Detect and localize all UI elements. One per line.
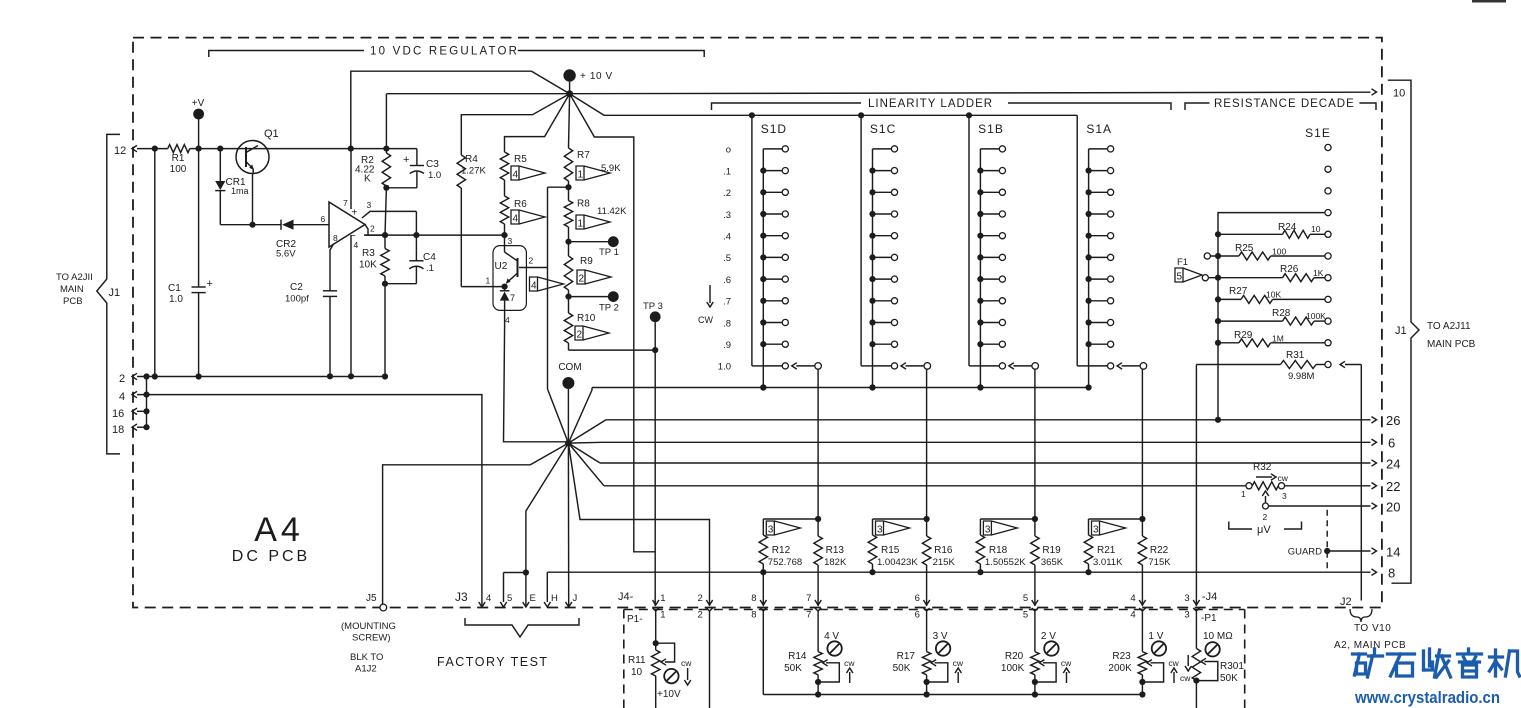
svg-text:+ 10 V: + 10 V	[580, 71, 613, 82]
switch S1B contact 8	[980, 322, 999, 324]
switch S1C contact 3	[873, 213, 892, 215]
svg-text:2: 2	[1263, 512, 1268, 522]
svg-text:1: 1	[660, 593, 665, 604]
wire J4 to R17	[926, 611, 928, 652]
R32 cw arrow	[1256, 476, 1272, 478]
U1 pin 7	[350, 149, 352, 209]
capacitor C2	[323, 290, 337, 292]
svg-text:www.crystalradio.cn: www.crystalradio.cn	[1354, 689, 1500, 707]
svg-text:4: 4	[119, 391, 125, 403]
R14 screw	[827, 641, 841, 655]
svg-text:182K: 182K	[824, 557, 847, 568]
switch S1D contact 7	[763, 300, 782, 302]
wire TP3 line down to J4 pin1	[654, 350, 656, 606]
svg-text:A4: A4	[254, 511, 304, 549]
trimpot R23	[1138, 652, 1146, 675]
svg-text:R26: R26	[1280, 264, 1299, 275]
wire pin 8 line	[547, 571, 1370, 573]
svg-text:16: 16	[112, 408, 124, 420]
svg-text:4: 4	[1130, 593, 1135, 604]
pin 26 arrow	[1372, 417, 1377, 423]
svg-text:4 V: 4 V	[824, 631, 839, 642]
svg-text:R27: R27	[1229, 286, 1248, 297]
svg-text:18: 18	[112, 424, 124, 436]
svg-text:cw: cw	[844, 658, 855, 668]
svg-text:A2, MAIN PCB: A2, MAIN PCB	[1334, 640, 1406, 651]
wire pin 12 drop	[154, 149, 156, 377]
resistor R3	[381, 249, 389, 277]
svg-text:R1: R1	[172, 153, 185, 164]
svg-text:6: 6	[321, 214, 326, 224]
svg-text:8: 8	[751, 593, 756, 604]
switch S1B contact 3	[980, 213, 999, 215]
resistor R28	[1218, 320, 1283, 322]
switch S1D contact 10	[763, 365, 782, 367]
J3 pin E arrow	[523, 602, 529, 607]
switch S1C wiper	[924, 363, 931, 370]
wire pin 22 line right	[1285, 485, 1371, 487]
pin 24 arrow	[1372, 460, 1377, 466]
switch S1A bus	[1076, 115, 1078, 366]
wire Q1 emitter down	[252, 174, 254, 225]
wire J4 pin1 to R11	[655, 611, 657, 650]
svg-text:R14: R14	[788, 651, 807, 662]
switch S1B contact 2	[980, 191, 999, 193]
svg-text:SCREW): SCREW)	[352, 633, 391, 644]
wire star down to R7	[569, 94, 570, 148]
wire star to ladder feed	[570, 94, 1078, 116]
wire COM star to pin24 line	[568, 443, 600, 463]
svg-text:100: 100	[170, 164, 187, 175]
resistor R5	[500, 152, 508, 180]
wire COM star to line A	[568, 388, 592, 444]
flag 1 of R8	[576, 215, 610, 229]
flag 2 of R10	[575, 326, 609, 340]
resistor R15	[868, 535, 876, 564]
svg-text:J: J	[573, 593, 578, 604]
svg-text:5: 5	[1023, 610, 1028, 621]
switch S1A contact 10	[1089, 365, 1108, 367]
svg-text:P1-: P1-	[627, 614, 643, 625]
svg-text:C3: C3	[426, 159, 439, 170]
svg-text:R7: R7	[577, 150, 590, 161]
switch S1A contact 2	[1089, 191, 1108, 193]
resistor R6	[504, 180, 506, 196]
resistor R12	[759, 535, 767, 564]
svg-text:J4-: J4-	[618, 591, 634, 603]
svg-text:BLK TO: BLK TO	[350, 652, 383, 663]
U1 pin 4 wire	[350, 235, 352, 376]
label uV bracket	[1229, 522, 1252, 530]
switch S1A contact 5	[1089, 256, 1108, 258]
svg-text:1.50552K: 1.50552K	[985, 557, 1026, 568]
svg-text:1.0: 1.0	[428, 170, 441, 181]
pin 4 arrow	[132, 391, 137, 397]
svg-text:PCB: PCB	[63, 296, 83, 307]
svg-text:TP 2: TP 2	[599, 303, 619, 314]
svg-text:DC PCB: DC PCB	[232, 548, 310, 565]
resistor R4	[457, 155, 465, 188]
switch S1A contact 3	[1089, 213, 1108, 215]
switch S1C bus	[860, 115, 862, 366]
switch S1B bus	[968, 115, 970, 366]
svg-text:cw: cw	[1180, 673, 1191, 683]
wire star to R4	[461, 94, 569, 155]
svg-text:4: 4	[531, 281, 537, 292]
switch S1B contact 5	[980, 256, 999, 258]
svg-text:GUARD: GUARD	[1288, 547, 1322, 558]
switch S1C feed dot	[858, 112, 864, 118]
label 10 VDC REGULATOR bracket	[209, 51, 364, 58]
switch S1D bus	[751, 115, 753, 366]
wire pin 26 line	[606, 419, 1371, 421]
svg-text:7: 7	[806, 610, 811, 621]
svg-text:RESISTANCE DECADE: RESISTANCE DECADE	[1214, 98, 1355, 110]
test point TP2	[569, 296, 610, 298]
svg-text:5: 5	[1023, 593, 1028, 604]
trimpot R11	[652, 650, 660, 676]
svg-text:MAIN: MAIN	[60, 284, 84, 295]
wire pin 22 line left	[604, 485, 1246, 487]
svg-text:6: 6	[915, 593, 920, 604]
transistor U2 box	[493, 246, 526, 311]
wire pin12 to R1	[137, 148, 168, 150]
svg-text:5: 5	[507, 593, 512, 604]
wire star to +10V drop line	[570, 94, 656, 552]
svg-text:10 MΩ: 10 MΩ	[1203, 631, 1233, 642]
svg-text:+: +	[403, 154, 409, 166]
svg-text:20: 20	[1386, 500, 1400, 515]
svg-text:2: 2	[698, 610, 703, 621]
wire R18 R19 junction	[980, 518, 1035, 520]
svg-text:K: K	[364, 174, 371, 185]
wire COM star to J3 pin J	[567, 443, 569, 606]
GUARD dashed line	[1326, 510, 1328, 570]
resistor R8	[568, 187, 570, 200]
ladder CW arrow	[709, 285, 711, 303]
pin 2 arrow	[132, 373, 137, 379]
R301 cw arrow	[1187, 655, 1189, 666]
svg-text:.7: .7	[723, 297, 731, 308]
svg-text:3: 3	[877, 525, 883, 536]
trimpot R20	[1031, 652, 1039, 675]
svg-text:C4: C4	[423, 252, 436, 263]
svg-text:R3: R3	[362, 248, 375, 259]
R32 wiper	[1263, 503, 1269, 509]
J3 pin 4 arrow	[479, 602, 485, 607]
svg-text:1: 1	[578, 219, 584, 230]
svg-text:J1: J1	[109, 287, 121, 299]
svg-text:3: 3	[1184, 593, 1189, 604]
switch S1B contact 0	[980, 148, 999, 150]
svg-text:.8: .8	[723, 318, 731, 329]
wire R3 bottom to bus	[384, 284, 386, 377]
svg-text:R8: R8	[577, 199, 590, 210]
wire U2 pin2 column up	[547, 187, 549, 267]
switch S1D contact 8	[763, 322, 782, 324]
svg-text:100: 100	[1272, 247, 1286, 257]
J4 pin 4 arrow	[1139, 600, 1145, 605]
switch S1A contact 1	[1089, 170, 1108, 172]
pin 20 arrow	[1372, 503, 1377, 509]
svg-text:R15: R15	[881, 545, 900, 556]
svg-text:.1: .1	[723, 166, 731, 177]
svg-text:+: +	[352, 208, 358, 219]
svg-text:J2: J2	[1340, 596, 1352, 608]
fuse F1 terminals	[1204, 253, 1210, 259]
svg-text:R22: R22	[1150, 545, 1169, 556]
switch S1C contact 1	[873, 170, 892, 172]
wire star left to R2	[385, 148, 387, 150]
svg-text:4: 4	[354, 240, 359, 250]
diode CR1	[219, 149, 221, 181]
wire star to Q1 feed	[351, 71, 570, 148]
switch S1D contact 6	[763, 278, 782, 280]
svg-text:H: H	[551, 593, 558, 604]
U2 pin 2 wire	[519, 267, 548, 269]
svg-text:200K: 200K	[1108, 663, 1132, 674]
wire R7-R8 node left	[548, 186, 569, 188]
wire ladder bottom line A	[592, 387, 1089, 389]
svg-text:S1D: S1D	[761, 122, 787, 136]
svg-text:3: 3	[1282, 491, 1287, 501]
svg-text:50K: 50K	[1220, 673, 1238, 684]
label RESISTANCE DECADE bracket	[1185, 103, 1210, 110]
wire COM star to J3 pin E	[526, 443, 569, 606]
pin 6 arrow	[1372, 439, 1377, 445]
J4 pin 2 arrow	[706, 600, 712, 605]
svg-text:cw: cw	[953, 658, 964, 668]
wire +10V stem	[569, 82, 571, 94]
switch S1B feed dot	[966, 112, 972, 118]
switch S1B contact 4	[980, 235, 999, 237]
resistor R7	[564, 148, 572, 181]
resistor R29	[1218, 342, 1239, 344]
R23 screw	[1152, 641, 1166, 655]
svg-text:.4: .4	[723, 232, 731, 243]
J4 pin 5 arrow	[1032, 600, 1038, 605]
wire COM star to pin6 line	[568, 441, 602, 444]
wire star to pin 10	[570, 92, 1371, 94]
svg-text:R4: R4	[465, 154, 478, 165]
svg-text:50K: 50K	[893, 663, 911, 674]
switch S1A contact 6	[1089, 278, 1108, 280]
flag 3 of R12	[766, 521, 800, 535]
switch S1C contact 2	[873, 191, 892, 193]
switch S1E contacts	[1325, 144, 1331, 150]
switch S1A contact 8	[1089, 322, 1108, 324]
junction +10V star	[566, 90, 573, 97]
svg-text:μV: μV	[1257, 524, 1271, 536]
U2 pin 3 wire	[504, 235, 506, 252]
wire J4 pin8 to rail	[762, 611, 764, 695]
wire S1E row3 to bus	[1218, 213, 1325, 235]
svg-text:1.0: 1.0	[169, 294, 183, 305]
switch S1A contact 9	[1089, 343, 1108, 345]
svg-text:1.0: 1.0	[718, 362, 731, 373]
trimpot R14	[814, 652, 822, 675]
flag 2 of R9	[577, 270, 611, 284]
resistor R16	[926, 519, 928, 536]
svg-text:TP 3: TP 3	[643, 301, 663, 312]
svg-text:S1B: S1B	[978, 122, 1004, 136]
svg-text:10: 10	[1311, 224, 1321, 234]
wire S1A wiper to R21 R22 junction	[1141, 369, 1143, 519]
connector J1 left bracket	[97, 134, 120, 454]
svg-text:.5: .5	[723, 253, 731, 264]
switch S1A feed dot	[1076, 114, 1078, 116]
resistor R21	[1084, 535, 1092, 564]
wire node to R6 bottom	[385, 234, 505, 236]
svg-text:2: 2	[698, 593, 703, 604]
svg-text:10K: 10K	[1266, 290, 1281, 300]
switch S1D contact column	[762, 149, 764, 388]
svg-text:J3: J3	[455, 590, 468, 604]
wire S1D wiper to R12 R13 junction	[817, 369, 819, 519]
node COM	[562, 377, 574, 389]
svg-text:FACTORY TEST: FACTORY TEST	[437, 655, 549, 669]
svg-text:2 V: 2 V	[1041, 631, 1056, 642]
svg-text:R20: R20	[1005, 651, 1024, 662]
J4 pin 1 arrow	[653, 600, 659, 605]
svg-text:1K: 1K	[1313, 268, 1324, 278]
wire S1E wiper to J2	[1345, 364, 1361, 366]
R11 screw	[664, 669, 678, 683]
svg-text:2: 2	[119, 373, 125, 385]
switch S1C contact column	[872, 149, 874, 388]
wire J4 pin2 down	[709, 611, 711, 708]
node +10V	[563, 69, 575, 81]
switch S1C contact 9	[873, 343, 892, 345]
wire U1 minus node	[365, 234, 385, 236]
resistor R19	[1034, 519, 1036, 536]
wire R10 bottom to TP3 line	[569, 349, 656, 351]
transistor U2 internals	[517, 258, 519, 277]
diode CR2 5.6V	[280, 220, 282, 230]
P1 connector dashed outline	[624, 610, 1245, 708]
svg-text:6: 6	[915, 610, 920, 621]
svg-text:cw: cw	[681, 658, 692, 668]
wire COM star to pin26 line	[568, 420, 606, 443]
switch S1A contact column	[1088, 149, 1090, 388]
svg-text:7: 7	[806, 593, 811, 604]
pin 10 arrow	[1372, 89, 1377, 95]
svg-text:24: 24	[1386, 457, 1400, 472]
wire R1 to Q1 to +10V column	[190, 148, 351, 150]
wire pins 4-16-18 stub	[137, 410, 147, 412]
capacitor C1	[198, 149, 200, 287]
wire +V stem	[198, 119, 200, 149]
switch S1B contact 7	[980, 300, 999, 302]
pin 12 arrow	[132, 145, 137, 151]
switch S1B contact 10	[980, 365, 999, 367]
resistor R24	[1218, 233, 1283, 235]
wire J4 to R23	[1141, 611, 1143, 652]
svg-text:2: 2	[370, 224, 375, 234]
svg-text:R16: R16	[934, 545, 953, 556]
switch S1A wiper	[1140, 363, 1147, 370]
svg-text:-P1: -P1	[1201, 613, 1217, 624]
node +V	[193, 109, 204, 120]
switch S1D contact 4	[763, 235, 782, 237]
svg-text:2: 2	[577, 330, 583, 341]
wire R2 top to C3	[351, 148, 417, 150]
switch S1C contact 4	[873, 235, 892, 237]
svg-text:4: 4	[1130, 610, 1135, 621]
svg-text:R23: R23	[1112, 651, 1131, 662]
switch S1C contact 5	[873, 256, 892, 258]
wire S1B wiper to R18 R19 junction	[1034, 369, 1036, 519]
svg-text:100K: 100K	[1306, 311, 1326, 321]
node C1 bottom	[196, 373, 202, 379]
svg-text:R29: R29	[1234, 330, 1253, 341]
wire pin 4 to J3 pin 4	[137, 395, 482, 606]
svg-text:COM: COM	[558, 362, 581, 373]
svg-text:R9: R9	[580, 256, 593, 267]
svg-text:1ma: 1ma	[231, 186, 249, 196]
svg-text:1M: 1M	[1272, 334, 1284, 344]
watermark crystalradio logo	[1353, 652, 1366, 655]
svg-text:o: o	[726, 145, 731, 156]
svg-text:R18: R18	[989, 545, 1008, 556]
switch S1C contact 7	[873, 300, 892, 302]
trimpot R17	[922, 652, 930, 675]
resistor R22	[1141, 519, 1143, 536]
capacitor C3	[416, 149, 418, 166]
svg-text:TO V10: TO V10	[1354, 623, 1391, 634]
svg-text:cw: cw	[1168, 658, 1179, 668]
connector J5	[380, 604, 387, 611]
R17 screw	[936, 641, 950, 655]
svg-text:J5: J5	[366, 593, 377, 604]
wire J4 to R14	[817, 611, 819, 652]
wire COM star to J4 pin2	[568, 443, 709, 606]
svg-text:4: 4	[486, 593, 491, 604]
svg-text:1: 1	[578, 170, 584, 181]
svg-text:R12: R12	[772, 545, 791, 556]
svg-text:LINEARITY LADDER: LINEARITY LADDER	[868, 98, 993, 110]
svg-text:.6: .6	[723, 275, 731, 286]
J4 pin 6 arrow	[923, 600, 929, 605]
resistor R13	[817, 519, 819, 536]
svg-text:3 V: 3 V	[933, 631, 948, 642]
page number fragment top right	[1472, 0, 1506, 3]
svg-text:J1: J1	[1395, 325, 1407, 337]
svg-text:8: 8	[333, 233, 338, 243]
trimpot R301	[1192, 648, 1200, 680]
svg-text:R6: R6	[514, 199, 527, 210]
wire COM stem	[567, 389, 569, 443]
svg-text:3: 3	[1093, 525, 1099, 536]
switch S1D contact 3	[763, 213, 782, 215]
flag 3 of R21	[1092, 521, 1126, 535]
U1 pin 3 wire	[362, 211, 416, 218]
svg-text:R24: R24	[1278, 222, 1297, 233]
svg-text:MAIN PCB: MAIN PCB	[1427, 339, 1476, 350]
svg-text:26: 26	[1386, 413, 1400, 428]
svg-text:12: 12	[114, 145, 126, 157]
wire CR1-CR2 link	[220, 224, 281, 226]
svg-text:752.768: 752.768	[768, 557, 802, 568]
switch S1A contact 4	[1089, 235, 1108, 237]
switch S1A contact 0	[1089, 148, 1108, 150]
svg-text:3: 3	[367, 200, 372, 210]
resistor R27	[1218, 298, 1241, 300]
svg-text:14: 14	[1386, 545, 1400, 560]
wire pin 14 line	[1327, 550, 1370, 552]
svg-text:A1J2: A1J2	[355, 664, 377, 675]
resistor R18	[976, 535, 984, 564]
